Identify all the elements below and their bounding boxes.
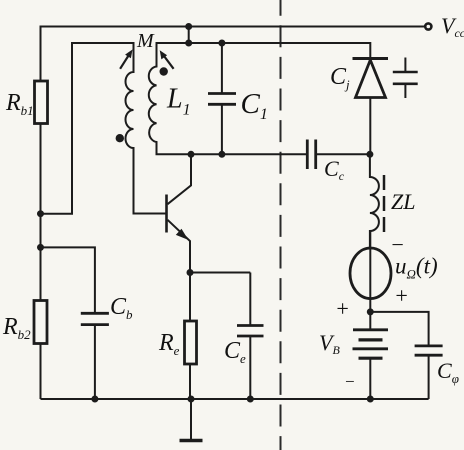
varactor diode Cj triangle <box>356 60 386 98</box>
capacitor Ce <box>249 273 251 326</box>
battery VB <box>369 312 371 330</box>
node source/battery junction <box>367 308 374 315</box>
capacitor Cphi <box>415 344 443 347</box>
svg-text:−: − <box>344 372 355 391</box>
resistor Rb2 <box>40 247 42 300</box>
ground <box>190 399 192 440</box>
node tank/Vcc <box>185 23 192 30</box>
node Re/ground <box>188 396 195 403</box>
transistor Q1 emitter with arrow <box>168 220 191 273</box>
capacitor Cc <box>306 140 309 170</box>
wire Rb1 junction to Rb2 junction <box>40 214 42 248</box>
node C1 bottom <box>218 151 225 158</box>
svg-text:+: + <box>335 296 350 321</box>
capacitor Cb <box>81 312 109 315</box>
inductor L1 (tank winding) with top rail segment and tank bottom wire to Cc <box>149 43 371 154</box>
svg-text:ZL: ZL <box>391 189 415 214</box>
node tank top <box>185 40 192 47</box>
svg-text:uΩ(t): uΩ(t) <box>395 254 438 282</box>
polarity dot left coil <box>116 134 124 142</box>
dashed separator line <box>280 0 282 450</box>
wire Vcc rail top <box>41 27 425 82</box>
node emitter <box>187 269 194 276</box>
wire through source <box>369 231 371 312</box>
transistor Q1 base bar <box>165 195 168 233</box>
ZL core dashes <box>383 175 386 234</box>
node battery/bus <box>367 396 374 403</box>
wire bias to feedback coil top, inductor L2 (feedback winding) and base wire <box>41 43 166 214</box>
arrow right (mutual coupling) <box>164 56 174 69</box>
svg-text:+: + <box>394 283 409 308</box>
polarity dot right coil <box>160 67 168 75</box>
wire junction to Cb <box>41 247 95 313</box>
node Cb/bus <box>91 396 98 403</box>
wire ground bus bottom <box>41 398 429 400</box>
inductor ZL <box>370 154 379 248</box>
transistor Q1 collector <box>168 154 192 204</box>
terminal Vcc <box>425 23 431 29</box>
resistor Re <box>189 273 191 322</box>
arrow left (mutual coupling) <box>120 56 128 69</box>
node Rb1/Rb2 junction <box>37 210 44 217</box>
node varactor/Cc/ZL <box>366 151 373 158</box>
node Ce/bus <box>247 396 254 403</box>
varactor capacitance symbol <box>404 58 406 72</box>
wire emitter to Ce <box>190 272 250 274</box>
node C1 top <box>218 40 225 47</box>
source uΩ(t) circle <box>350 248 391 299</box>
resistor Rb1 <box>35 81 48 124</box>
wire Vcc rail to tank top <box>188 27 190 44</box>
svg-text:M: M <box>136 30 155 52</box>
wire Rb1 bottom lead <box>40 124 42 214</box>
node Rb2 top / Cb junction <box>37 244 44 251</box>
capacitor C1 <box>221 43 223 94</box>
varactor diode Cj cathode bar <box>353 57 389 60</box>
node collector/tank <box>188 151 195 158</box>
wire junction to Cphi <box>370 312 428 346</box>
wire diode anode down <box>369 98 371 155</box>
